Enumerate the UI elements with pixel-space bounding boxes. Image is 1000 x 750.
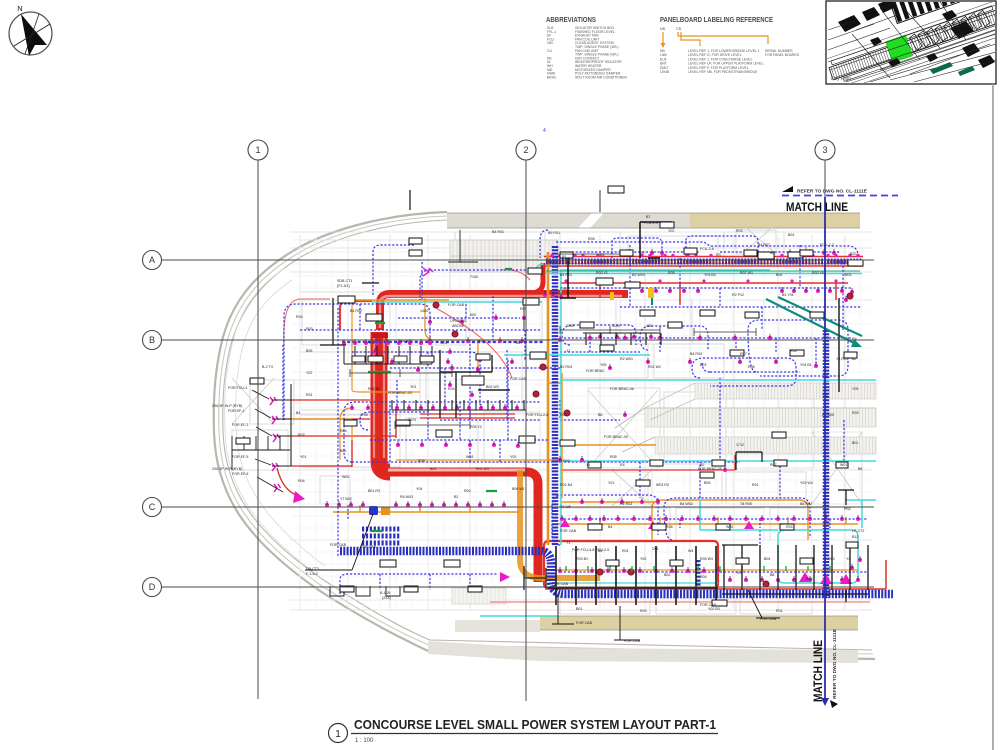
label leader diagonals left edge xyxy=(252,390,283,492)
grid row line D xyxy=(161,586,874,588)
branch circuit loop trunkleft xyxy=(373,245,422,300)
svg-text:W03: W03 xyxy=(466,455,473,459)
dimension ticks rows xyxy=(350,254,756,429)
svg-text:600: 600 xyxy=(470,313,476,317)
U-combs bottom left xyxy=(330,586,400,596)
branch circuit loop A4 xyxy=(390,352,560,368)
branch heavy dashed row B xyxy=(342,341,544,343)
svg-text:R2 P12: R2 P12 xyxy=(732,293,744,297)
svg-text:7100: 7100 xyxy=(470,275,478,279)
svg-text:FOR CAB: FOR CAB xyxy=(552,582,569,586)
svg-text:MATCH LINE: MATCH LINE xyxy=(786,202,848,214)
fan isolator arrows left edge xyxy=(270,268,852,584)
grid bubble A xyxy=(143,251,162,270)
cyan run travelator bottom xyxy=(560,460,876,462)
abbreviations table xyxy=(547,26,627,79)
svg-text:FOR CAB: FOR CAB xyxy=(560,529,577,533)
svg-text:Y1: Y1 xyxy=(566,349,570,353)
orange riser spine xyxy=(547,252,550,545)
svg-text:B4: B4 xyxy=(600,253,604,257)
branch circuit loop D4 xyxy=(612,238,662,258)
staircase hatch block xyxy=(450,240,558,272)
svg-text:Y04: Y04 xyxy=(416,487,422,491)
socket outlets row above trunk (y408) xyxy=(395,404,519,410)
svg-text:B2 R04: B2 R04 xyxy=(560,365,572,369)
branch circuit loop E2 xyxy=(664,498,810,540)
svg-text:Y03: Y03 xyxy=(736,571,742,575)
svg-text:R03: R03 xyxy=(736,229,743,233)
svg-text:BRAC: BRAC xyxy=(547,75,557,79)
svg-text:PANELBOARD LABELING REFERENCE: PANELBOARD LABELING REFERENCE xyxy=(660,17,773,24)
svg-text:Y05: Y05 xyxy=(852,387,858,391)
key plan pier band xyxy=(826,0,1000,92)
svg-text:R02 Y1: R02 Y1 xyxy=(596,271,608,275)
svg-text:R05: R05 xyxy=(790,349,797,353)
svg-text:FCU-2-8: FCU-2-8 xyxy=(700,247,714,251)
svg-text:FOR CAB: FOR CAB xyxy=(576,621,593,625)
svg-text:B12: B12 xyxy=(852,535,858,539)
socket outlets lower mid row (y502) xyxy=(580,498,660,504)
grid column line 1 xyxy=(257,159,259,699)
svg-text:W03 R2: W03 R2 xyxy=(656,483,669,487)
cyan run y302 xyxy=(372,301,542,303)
svg-text:2300: 2300 xyxy=(566,324,574,328)
svg-text:R04: R04 xyxy=(640,609,647,613)
panel comb row B upper xyxy=(344,346,432,364)
tan roof band top right xyxy=(690,213,860,228)
svg-text:R03: R03 xyxy=(560,413,567,417)
branch circuit loop B3 xyxy=(352,461,560,463)
svg-text:R02: R02 xyxy=(464,489,471,493)
cyan run lower right xyxy=(700,500,778,530)
svg-text:B4: B4 xyxy=(296,411,300,415)
svg-text:B2: B2 xyxy=(700,463,704,467)
socket outlets row B (y343) xyxy=(342,339,432,345)
svg-text:LP-CT2: LP-CT2 xyxy=(852,529,864,533)
north arrow symbol xyxy=(9,4,52,56)
grid row line B xyxy=(161,339,874,341)
branch circuit loop A3 xyxy=(352,352,480,405)
svg-text:R4: R4 xyxy=(620,463,625,467)
svg-text:LENB: LENB xyxy=(660,70,670,74)
svg-text:Key Plan: Key Plan xyxy=(831,76,851,82)
panel comb right of room xyxy=(722,545,868,594)
tiny annotation labels xyxy=(212,215,864,643)
cable tray caterpillar bottom run xyxy=(340,551,893,594)
branch circuit loop J1 xyxy=(560,400,620,420)
svg-text:R06: R06 xyxy=(666,525,673,529)
panel comb electrical room xyxy=(548,546,718,605)
orange run y300 xyxy=(352,299,449,301)
svg-text:B02 W3: B02 W3 xyxy=(486,385,499,389)
svg-text:FOR CAB: FOR CAB xyxy=(448,303,465,307)
svg-text:1 : 100: 1 : 100 xyxy=(355,738,374,744)
svg-text:R01: R01 xyxy=(776,609,783,613)
svg-text:FOR PANEL BOARDS: FOR PANEL BOARDS xyxy=(765,53,800,57)
svg-text:N: N xyxy=(17,4,22,13)
svg-text:B02: B02 xyxy=(340,449,346,453)
svg-text:R05: R05 xyxy=(610,455,617,459)
svg-text:ABOVE: ABOVE xyxy=(452,324,465,328)
grid bubble 2 xyxy=(516,140,536,160)
orange vertical branch center xyxy=(548,373,660,502)
svg-text:B4 R07: B4 R07 xyxy=(758,243,770,247)
svg-text:(2X4): (2X4) xyxy=(382,596,391,600)
svg-text:B4 R03: B4 R03 xyxy=(690,352,702,356)
svg-text:FOR EF-6: FOR EF-6 xyxy=(232,472,248,476)
branch circuit run D2 xyxy=(560,287,852,289)
svg-text:R02 Y5: R02 Y5 xyxy=(812,271,824,275)
red sub feeder top right xyxy=(560,283,848,305)
svg-text:FCU-2-9: FCU-2-9 xyxy=(644,221,658,225)
svg-text:FOR CAB: FOR CAB xyxy=(330,543,347,547)
svg-text:B6: B6 xyxy=(858,467,862,471)
stair hatch below D xyxy=(452,588,506,604)
svg-text:Y02: Y02 xyxy=(640,557,646,561)
left arrow bus vertical xyxy=(272,384,291,466)
branch circuit loop B2 xyxy=(370,402,548,462)
branch circuit run D3 xyxy=(620,306,862,308)
svg-text:Y01: Y01 xyxy=(608,481,614,485)
branch circuit loop H2 xyxy=(440,412,540,420)
branch circuit loop G1 xyxy=(562,325,636,345)
svg-text:FOR BRAC: FOR BRAC xyxy=(586,369,605,373)
svg-text:DB-CT3: DB-CT3 xyxy=(306,567,319,571)
key plan highlighted zone xyxy=(886,35,913,63)
cyan right edge drop xyxy=(845,500,876,528)
black distribution lines center xyxy=(320,190,410,345)
svg-text:R1: R1 xyxy=(562,255,567,259)
cyan run 272 xyxy=(562,269,770,271)
svg-text:R04: R04 xyxy=(298,479,305,483)
branch circuit loop C3 xyxy=(340,574,498,594)
branch circuit drop rows xyxy=(397,330,525,406)
branch circuit run D1b xyxy=(560,251,840,253)
svg-text:R05: R05 xyxy=(668,271,675,275)
svg-text:Y03 W4: Y03 W4 xyxy=(800,481,813,485)
yellow marker xyxy=(648,288,654,298)
svg-text:B01: B01 xyxy=(852,441,858,445)
orange stub left mid xyxy=(284,419,352,440)
socket pairs on main tray band xyxy=(550,254,859,283)
svg-text:(F1-5/1): (F1-5/1) xyxy=(337,284,350,288)
cable tray coil xyxy=(362,529,400,543)
svg-text:T1: T1 xyxy=(566,541,570,545)
orange branch wavy row C left xyxy=(333,505,520,512)
svg-text:B20: B20 xyxy=(850,252,856,256)
svg-text:B4 W02: B4 W02 xyxy=(680,502,693,506)
svg-text:NB: NB xyxy=(660,27,666,31)
svg-text:FOR EF-3: FOR EF-3 xyxy=(232,423,248,427)
svg-text:FOR BRAC-05: FOR BRAC-05 xyxy=(604,435,628,439)
interior partition grid xyxy=(232,230,872,614)
svg-text:2: 2 xyxy=(523,145,528,155)
branch circuit verticals mid rooms xyxy=(470,296,507,420)
svg-text:B4 R02: B4 R02 xyxy=(350,309,362,313)
branch circuit loop A2 xyxy=(300,304,540,330)
svg-text:B03: B03 xyxy=(430,467,436,471)
socket outlets center scatter xyxy=(350,288,862,570)
svg-text:FOR FCU-2-6: FOR FCU-2-6 xyxy=(526,413,548,417)
black bracket bottom right xyxy=(748,590,780,618)
svg-text:SDB-CT1: SDB-CT1 xyxy=(337,279,352,283)
svg-text:2700: 2700 xyxy=(360,413,368,417)
green tick marks xyxy=(368,269,512,531)
svg-text:FOR BRAC-06: FOR BRAC-06 xyxy=(610,387,634,391)
svg-text:FOR CAB: FOR CAB xyxy=(360,545,377,549)
branch circuit loop A1 xyxy=(284,304,430,420)
svg-text:R6 W03: R6 W03 xyxy=(400,495,413,499)
svg-text:2X6 3P W-P (RYB): 2X6 3P W-P (RYB) xyxy=(212,467,242,471)
svg-text:B6: B6 xyxy=(598,413,602,417)
svg-text:B6 R02: B6 R02 xyxy=(800,502,812,506)
key plan pier modules xyxy=(909,9,991,50)
svg-text:R02 B4: R02 B4 xyxy=(560,483,572,487)
svg-text:W03: W03 xyxy=(844,273,851,277)
svg-text:B3 Y01: B3 Y01 xyxy=(782,293,794,297)
svg-text:Y03: Y03 xyxy=(510,455,516,459)
cyan run travelator top xyxy=(560,379,876,381)
svg-text:B01: B01 xyxy=(576,607,582,611)
svg-text:REFER TO DWG NO. CL-1111E: REFER TO DWG NO. CL-1111E xyxy=(797,189,867,194)
red loop around left rooms xyxy=(284,299,330,345)
sheet edge line xyxy=(992,84,994,750)
black leader DB-CT3 xyxy=(305,514,373,570)
svg-text:Y2: Y2 xyxy=(640,251,644,255)
socket outlets row C left (y505) xyxy=(325,501,506,507)
svg-text:R4 B05: R4 B05 xyxy=(822,413,834,417)
svg-text:W02: W02 xyxy=(342,475,349,479)
svg-text:B4 R01: B4 R01 xyxy=(492,230,504,234)
branch circuit right low verticals xyxy=(640,420,844,498)
svg-text:PB2: PB2 xyxy=(844,507,851,511)
branch circuit loop E1 xyxy=(552,495,658,545)
svg-text:R06: R06 xyxy=(748,365,755,369)
svg-text:FOR EF-5: FOR EF-5 xyxy=(232,455,248,459)
svg-text:B-1 J5: B-1 J5 xyxy=(380,591,390,595)
branch circuit loop H1 xyxy=(360,412,430,430)
svg-text:B04: B04 xyxy=(776,273,782,277)
branch circuit top connector xyxy=(540,230,548,258)
branch circuit loop F1 xyxy=(702,362,800,372)
grid bubble 1 xyxy=(248,140,268,160)
blue junction square xyxy=(369,506,378,515)
branch circuit riser x336 xyxy=(337,308,339,556)
svg-text:C: C xyxy=(149,502,156,512)
black leader top right xyxy=(560,222,672,298)
svg-text:R04: R04 xyxy=(296,315,303,319)
orange loop right xyxy=(652,500,808,540)
svg-text:B05: B05 xyxy=(306,349,312,353)
cable tray stub column xyxy=(696,560,701,588)
branch circuit top left of spine xyxy=(420,270,535,300)
match line top label xyxy=(782,186,867,214)
branch circuit run right mid xyxy=(560,378,740,462)
branch circuit bottom drops xyxy=(380,574,470,590)
cyan room loop right xyxy=(778,530,858,583)
svg-text:3670: 3670 xyxy=(408,418,416,422)
svg-text:FOR CAB: FOR CAB xyxy=(510,377,527,381)
svg-text:B: B xyxy=(149,335,155,345)
red riser column left xyxy=(379,332,390,472)
svg-text:Y05: Y05 xyxy=(600,363,606,367)
cross braced rooms xyxy=(232,226,862,506)
svg-text:B7: B7 xyxy=(646,215,650,219)
svg-text:R03 B1: R03 B1 xyxy=(576,557,588,561)
svg-text:LEVEL REF NB, FOR PEDESTRIAN B: LEVEL REF NB, FOR PEDESTRIAN BRIDGE xyxy=(688,70,758,74)
grid bubble C xyxy=(143,498,162,517)
svg-text:FOR EF-1: FOR EF-1 xyxy=(228,409,244,413)
svg-text:R01 W2: R01 W2 xyxy=(648,365,661,369)
svg-text:1: 1 xyxy=(255,145,260,155)
cyan tray top band xyxy=(546,273,862,275)
svg-text:D: D xyxy=(149,582,156,592)
building outer shell xyxy=(214,212,875,659)
svg-text:FOR CAB: FOR CAB xyxy=(760,617,777,621)
svg-text:R05: R05 xyxy=(588,237,595,241)
svg-text:B04: B04 xyxy=(764,557,770,561)
svg-text:Y1: Y1 xyxy=(586,463,590,467)
svg-text:R04: R04 xyxy=(340,429,347,433)
black leader bracket 1712 xyxy=(736,452,854,602)
branch circuit spine left xyxy=(283,345,348,520)
branch circuit verticals H3 xyxy=(390,402,508,462)
svg-text:W01: W01 xyxy=(840,463,847,467)
svg-text:7100: 7100 xyxy=(560,287,568,291)
socket outlets row bottom right (y580) xyxy=(728,576,860,582)
branch circuit run bottom right xyxy=(560,571,868,573)
svg-text:FOR FCU-4-8 FCU-2-9: FOR FCU-4-8 FCU-2-9 xyxy=(572,548,609,552)
orange elbow mid center xyxy=(425,295,520,372)
grid column line 3 navy xyxy=(824,197,826,700)
svg-text:R01: R01 xyxy=(622,549,629,553)
svg-text:B4 R01: B4 R01 xyxy=(560,273,572,277)
red line along bottom cable tray xyxy=(545,560,886,589)
svg-text:B03: B03 xyxy=(700,363,706,367)
svg-text:B6: B6 xyxy=(770,251,774,255)
svg-text:B2: B2 xyxy=(852,357,856,361)
svg-text:Y4 R01: Y4 R01 xyxy=(836,357,848,361)
branch circuit drops D6 xyxy=(630,245,800,330)
teal line under tray band xyxy=(546,270,860,272)
svg-text:R2 R03: R2 R03 xyxy=(620,502,632,506)
svg-text:1712: 1712 xyxy=(736,443,744,447)
branch circuit loop D5 xyxy=(686,236,758,256)
svg-text:OPENING: OPENING xyxy=(450,319,467,323)
red valve cap on riser xyxy=(372,333,388,338)
svg-text:R01 W4: R01 W4 xyxy=(476,467,489,471)
grid bubble D xyxy=(143,578,162,597)
svg-text:R05 Y2: R05 Y2 xyxy=(470,425,482,429)
orange trunk top band xyxy=(546,263,860,265)
svg-text:B2: B2 xyxy=(454,495,458,499)
svg-text:VAV: VAV xyxy=(547,41,554,45)
svg-text:F-1-6-2: F-1-6-2 xyxy=(306,572,318,576)
orange top right segments xyxy=(805,247,807,258)
cyan riser xyxy=(560,269,562,545)
svg-text:R03: R03 xyxy=(852,411,859,415)
svg-text:B07: B07 xyxy=(516,341,522,345)
orange connectors around row B xyxy=(340,408,352,460)
orange branch row C right xyxy=(556,517,858,524)
red feeder trunk horizontal upper xyxy=(380,294,628,330)
svg-text:Y01: Y01 xyxy=(300,455,306,459)
svg-text:2X6 3P W-P (RYB): 2X6 3P W-P (RYB) xyxy=(212,404,242,408)
panelboard reference table xyxy=(660,49,800,74)
svg-text:R07: R07 xyxy=(740,352,747,356)
branch circuit loop D7 xyxy=(692,358,796,386)
svg-text:CB: CB xyxy=(676,27,682,31)
svg-text:FOR FCU-4: FOR FCU-4 xyxy=(228,386,247,390)
svg-text:4: 4 xyxy=(543,128,546,134)
svg-text:T8 R05: T8 R05 xyxy=(740,502,752,506)
svg-text:R04: R04 xyxy=(448,387,455,391)
svg-text:1: 1 xyxy=(335,729,341,740)
svg-text:MATCH LINE: MATCH LINE xyxy=(813,640,825,702)
svg-text:Y04 B1: Y04 B1 xyxy=(800,363,812,367)
svg-text:CONCOURSE LEVEL SMALL POWER SY: CONCOURSE LEVEL SMALL POWER SYSTEM LAYOU… xyxy=(354,717,716,732)
svg-text:R02: R02 xyxy=(828,557,835,561)
branch circuit loop G2 xyxy=(640,326,708,350)
branch circuit drops G4 xyxy=(590,338,816,366)
svg-text:R07: R07 xyxy=(770,463,777,467)
branch circuit vertical x843 xyxy=(842,262,844,330)
svg-text:R3: R3 xyxy=(716,253,721,257)
teal diagonal duct pair xyxy=(766,297,862,345)
svg-text:B8: B8 xyxy=(770,573,774,577)
branch circuit run G3 xyxy=(560,338,852,352)
grid column line 2 xyxy=(525,159,527,701)
key plan terminal mass xyxy=(838,0,896,32)
svg-text:FOR BRAC-05: FOR BRAC-05 xyxy=(698,467,722,471)
red drop near spine xyxy=(436,270,530,378)
svg-text:1140: 1140 xyxy=(612,324,620,328)
svg-text:Y02: Y02 xyxy=(668,229,674,233)
panel comb left tip xyxy=(232,436,290,470)
red branch thin lines left xyxy=(277,400,515,496)
svg-text:R03: R03 xyxy=(786,525,793,529)
svg-text:R05 W3: R05 W3 xyxy=(700,557,713,561)
svg-text:B2 W04: B2 W04 xyxy=(632,273,645,277)
orange heavy elbow lower xyxy=(520,470,600,578)
orange row at 568 xyxy=(545,569,858,571)
branch circuit run D1 xyxy=(556,242,858,256)
black leader FOR CAB bottom xyxy=(552,596,640,640)
branch circuit verticals right xyxy=(700,462,760,572)
svg-text:400: 400 xyxy=(646,324,652,328)
drawing title xyxy=(329,717,719,744)
svg-text:FOR BRAC-03: FOR BRAC-03 xyxy=(388,391,412,395)
svg-text:B06 W1: B06 W1 xyxy=(512,487,525,491)
svg-text:FCU-2-2: FCU-2-2 xyxy=(820,243,834,247)
grid bubble 3 xyxy=(815,140,835,160)
svg-text:R09: R09 xyxy=(418,459,425,463)
svg-text:R04: R04 xyxy=(700,575,707,579)
svg-text:T4 R03: T4 R03 xyxy=(558,459,570,463)
svg-text:W05: W05 xyxy=(440,341,447,345)
svg-text:R03: R03 xyxy=(306,327,313,331)
socket outlets row C right (y520) xyxy=(560,515,860,521)
svg-text:Y2: Y2 xyxy=(846,557,850,561)
branch circuit loop B1 xyxy=(344,402,540,462)
svg-text:Y02 B3: Y02 B3 xyxy=(708,607,720,611)
svg-text:ABBREVIATIONS: ABBREVIATIONS xyxy=(546,17,596,24)
key plan box xyxy=(826,0,1000,92)
svg-text:B4: B4 xyxy=(608,525,612,529)
svg-text:R02: R02 xyxy=(806,577,813,581)
orange feeder square marker xyxy=(381,507,390,515)
svg-text:B-2 T4: B-2 T4 xyxy=(262,365,273,369)
